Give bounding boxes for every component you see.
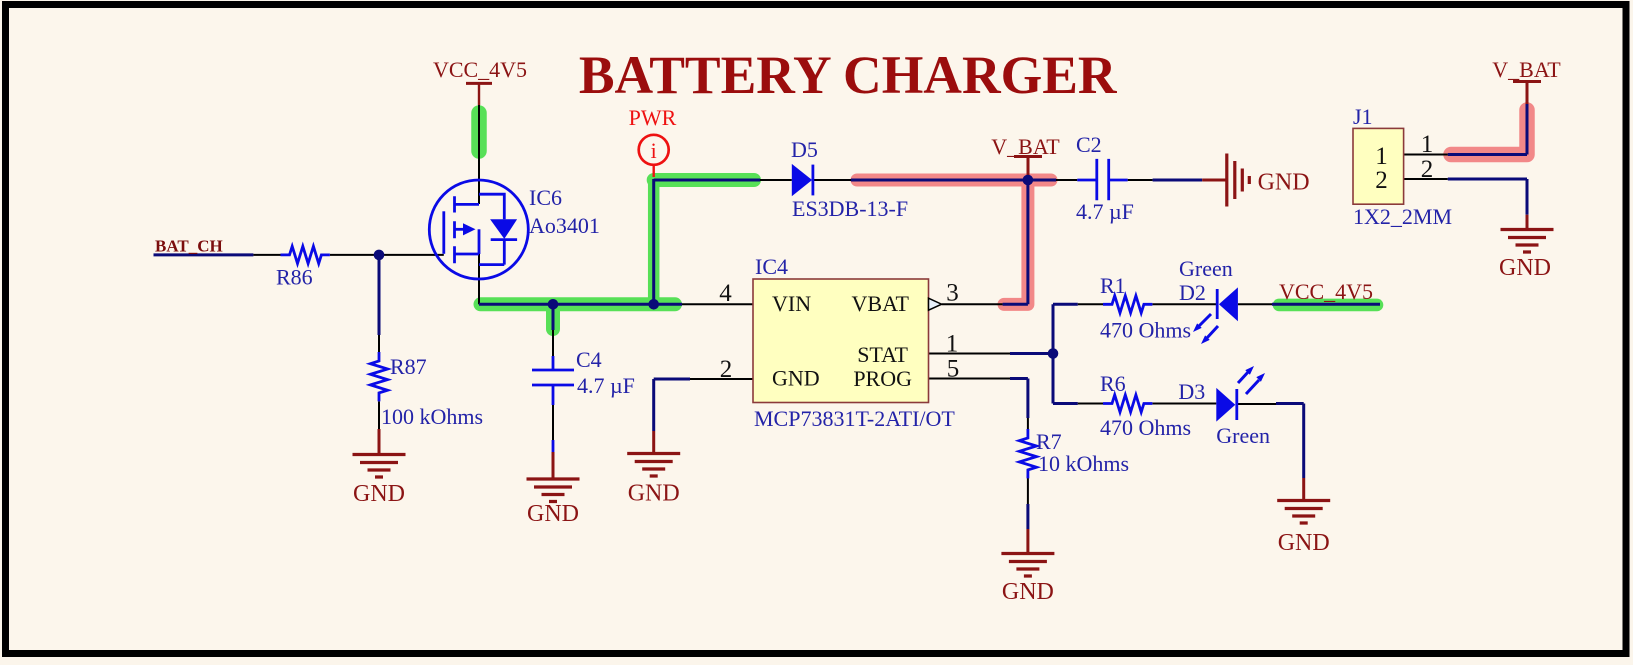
svg-text:PWR: PWR xyxy=(629,105,677,130)
svg-text:STAT: STAT xyxy=(857,342,908,367)
svg-text:4: 4 xyxy=(719,280,732,307)
svg-text:IC6: IC6 xyxy=(529,185,562,210)
svg-text:BATTERY CHARGER: BATTERY CHARGER xyxy=(579,45,1118,105)
svg-text:D5: D5 xyxy=(791,137,818,162)
svg-text:2: 2 xyxy=(720,356,733,383)
svg-text:R86: R86 xyxy=(276,265,313,290)
svg-text:GND: GND xyxy=(628,481,680,507)
svg-text:V_BAT: V_BAT xyxy=(991,134,1060,159)
svg-text:C4: C4 xyxy=(576,347,602,372)
svg-text:GND: GND xyxy=(1278,530,1330,556)
svg-text:i: i xyxy=(651,138,657,163)
svg-text:R87: R87 xyxy=(390,354,427,379)
svg-text:4.7 µF: 4.7 µF xyxy=(577,373,635,398)
svg-text:1X2_2MM: 1X2_2MM xyxy=(1353,204,1452,229)
svg-text:VBAT: VBAT xyxy=(852,291,910,316)
svg-text:D2: D2 xyxy=(1179,280,1206,305)
svg-text:R6: R6 xyxy=(1100,371,1126,396)
svg-text:Ao3401: Ao3401 xyxy=(529,213,600,238)
svg-text:3: 3 xyxy=(946,280,959,307)
svg-text:D3: D3 xyxy=(1178,379,1205,404)
svg-text:1: 1 xyxy=(946,331,959,358)
svg-text:J1: J1 xyxy=(1353,104,1373,129)
svg-text:GND: GND xyxy=(1258,170,1310,196)
svg-text:VCC_4V5: VCC_4V5 xyxy=(1279,279,1373,304)
svg-text:GND: GND xyxy=(527,501,579,527)
svg-text:PROG: PROG xyxy=(853,366,912,391)
svg-text:1: 1 xyxy=(1375,143,1388,170)
svg-text:2: 2 xyxy=(1375,167,1388,194)
svg-text:4.7 µF: 4.7 µF xyxy=(1076,199,1134,224)
svg-text:MCP73831T-2ATI/OT: MCP73831T-2ATI/OT xyxy=(754,406,955,431)
svg-text:BAT_CH: BAT_CH xyxy=(155,237,223,256)
svg-text:1: 1 xyxy=(1421,131,1434,158)
svg-text:V_BAT: V_BAT xyxy=(1492,57,1561,82)
svg-text:C2: C2 xyxy=(1076,132,1102,157)
svg-text:R1: R1 xyxy=(1100,273,1126,298)
svg-text:Green: Green xyxy=(1216,423,1270,448)
svg-text:GND: GND xyxy=(1002,579,1054,605)
svg-text:VCC_4V5: VCC_4V5 xyxy=(433,57,527,82)
svg-text:VIN: VIN xyxy=(772,291,811,316)
svg-text:470 Ohms: 470 Ohms xyxy=(1100,415,1191,440)
svg-text:100 kOhms: 100 kOhms xyxy=(381,404,483,429)
svg-text:2: 2 xyxy=(1421,156,1434,183)
svg-text:470 Ohms: 470 Ohms xyxy=(1100,318,1191,343)
svg-text:ES3DB-13-F: ES3DB-13-F xyxy=(792,196,908,221)
svg-text:10 kOhms: 10 kOhms xyxy=(1038,451,1129,476)
svg-text:GND: GND xyxy=(353,481,405,507)
svg-text:IC4: IC4 xyxy=(755,254,788,279)
svg-text:Green: Green xyxy=(1179,256,1233,281)
svg-text:GND: GND xyxy=(772,366,820,391)
svg-text:GND: GND xyxy=(1499,255,1551,281)
svg-text:5: 5 xyxy=(947,356,960,383)
